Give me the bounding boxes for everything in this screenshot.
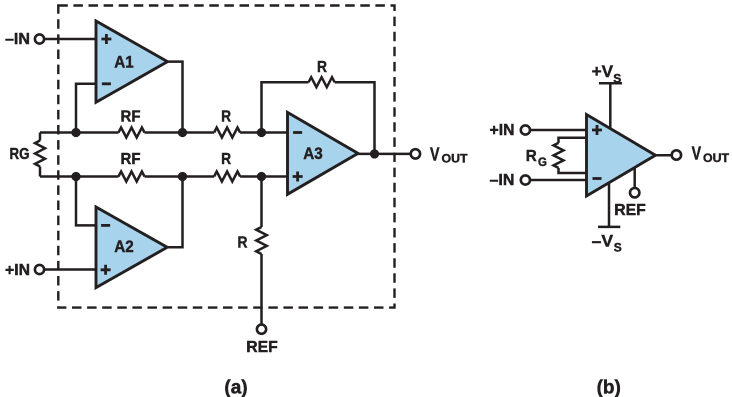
resistor R (lower, to A3 +) bbox=[214, 172, 240, 182]
svg-text:RG: RG bbox=[10, 146, 30, 163]
svg-text:A3: A3 bbox=[303, 144, 323, 163]
resistor RG with stubs bbox=[35, 133, 45, 177]
svg-text:+IN: +IN bbox=[490, 122, 515, 139]
svg-text:OUT: OUT bbox=[442, 152, 469, 166]
wire +VS into op amp bbox=[609, 83, 612, 135]
svg-text:–IN: –IN bbox=[490, 172, 515, 189]
terminal REF (b) bbox=[630, 188, 639, 197]
supply bar -VS bbox=[598, 226, 620, 229]
node A2 output junction bbox=[178, 172, 187, 181]
svg-text:S: S bbox=[614, 241, 622, 255]
wire node to R to REF bbox=[260, 177, 263, 324]
resistor RF (upper) bbox=[119, 128, 145, 138]
terminal +IN (b) bbox=[521, 125, 530, 134]
op-amp (b) bbox=[587, 115, 656, 197]
wire upper rail segments bbox=[40, 131, 288, 134]
wire A3 output to VOUT bbox=[357, 153, 410, 156]
svg-text:R: R bbox=[317, 59, 327, 76]
svg-text:R: R bbox=[238, 235, 248, 252]
svg-text:REF: REF bbox=[246, 339, 278, 356]
wire A1 output down to node N2 bbox=[166, 62, 183, 133]
terminal +IN bbox=[35, 265, 44, 274]
svg-text:A2: A2 bbox=[114, 237, 134, 256]
svg-text:G: G bbox=[538, 157, 547, 169]
wire A2 output up to node N4 bbox=[166, 177, 183, 248]
wire A2 inverting input up to node N3 bbox=[76, 177, 96, 226]
op-amp A2 bbox=[96, 207, 167, 288]
svg-text:+V: +V bbox=[592, 62, 614, 81]
svg-text:–IN: –IN bbox=[5, 31, 30, 48]
terminal REF (a) bbox=[257, 325, 266, 334]
node A2 feedback junction bbox=[71, 172, 80, 181]
supply bar +VS bbox=[599, 82, 622, 85]
wire +IN to op amp (b) bbox=[531, 129, 587, 132]
svg-text:V: V bbox=[430, 144, 440, 165]
svg-text:RF: RF bbox=[121, 109, 141, 126]
node A1 feedback junction bbox=[71, 128, 80, 137]
dashed boundary box of in-amp (a) bbox=[58, 6, 394, 308]
svg-text:+IN: +IN bbox=[5, 262, 30, 279]
svg-text:V: V bbox=[692, 143, 702, 164]
wire -IN to op amp (b) bbox=[531, 179, 587, 182]
wire output (b) bbox=[655, 154, 672, 157]
resistor R (reference) bbox=[256, 227, 267, 254]
resistor R (feedback) bbox=[309, 77, 335, 87]
node A3 noninverting input junction bbox=[257, 172, 266, 181]
terminal -IN bbox=[35, 34, 44, 43]
wire lower rail segments bbox=[40, 175, 288, 178]
op-amp A3 bbox=[288, 112, 359, 194]
node A3 output junction bbox=[370, 149, 379, 158]
wire REF stub (b) bbox=[633, 164, 636, 187]
wire -VS into op amp bbox=[608, 175, 611, 227]
resistor RG (b) with stubs bbox=[554, 138, 588, 173]
svg-text:R: R bbox=[526, 148, 537, 165]
node A3 inverting input junction bbox=[257, 128, 266, 137]
terminal VOUT bbox=[411, 149, 420, 158]
node A1 output junction bbox=[178, 128, 187, 137]
svg-text:REF: REF bbox=[614, 202, 646, 219]
svg-text:–V: –V bbox=[592, 232, 614, 251]
wire feedback loop of A3 bbox=[262, 82, 375, 154]
svg-text:OUT: OUT bbox=[703, 151, 730, 165]
resistor R (upper, to A3 -) bbox=[214, 128, 240, 138]
svg-text:(a): (a) bbox=[224, 378, 247, 397]
svg-text:RF: RF bbox=[121, 151, 141, 168]
wire A1 inverting input to node N1 bbox=[76, 84, 96, 133]
terminal VOUT (b) bbox=[672, 150, 681, 159]
svg-text:(b): (b) bbox=[597, 378, 621, 397]
wire -IN to A1 + bbox=[45, 38, 97, 41]
svg-text:A1: A1 bbox=[114, 53, 134, 72]
svg-text:R: R bbox=[221, 151, 231, 168]
terminal -IN (b) bbox=[521, 175, 530, 184]
svg-text:R: R bbox=[221, 109, 231, 126]
resistor RF (lower) bbox=[119, 172, 145, 182]
op-amp A1 bbox=[96, 21, 168, 102]
wire +IN to A2 + bbox=[45, 268, 97, 271]
